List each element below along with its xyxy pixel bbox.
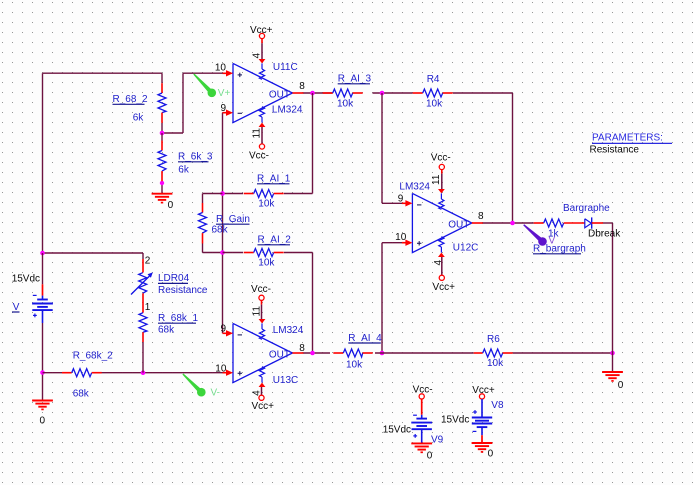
junction dot right ground node — [610, 351, 615, 356]
svg-text:15Vdc: 15Vdc — [441, 414, 469, 425]
label 15Vdc of V9 — [383, 424, 411, 435]
op-amp U11C LM324 — [223, 59, 304, 127]
svg-text:Vcc+: Vcc+ — [250, 25, 273, 36]
value 10k of R4 — [426, 99, 443, 110]
label R_Gain — [216, 214, 250, 225]
pin 10 label U11C — [215, 62, 227, 73]
pin 9 label U13C — [220, 324, 226, 335]
svg-text:11: 11 — [431, 174, 442, 185]
ground 0 right rail — [602, 372, 624, 391]
svg-text:R_AI_2: R_AI_2 — [258, 235, 292, 246]
wire R_AI_3 to R4 row segment — [373, 92, 413, 94]
photoresistor LDR04 vertical with arrow — [131, 259, 153, 313]
svg-text:R_AI_1: R_AI_1 — [257, 174, 291, 185]
svg-text:OUT: OUT — [269, 350, 290, 361]
wire top-left horizontal from left rail to R_68_2 — [43, 72, 163, 74]
pin 4 label U12C — [433, 260, 444, 266]
pin 4 label U13C — [252, 390, 263, 396]
junction dot U13C output node — [310, 351, 315, 356]
label R6 — [487, 334, 500, 345]
wire R_Gain bottom to R_AI_2 row — [203, 244, 223, 253]
value 10k of R_AI_2 — [258, 258, 275, 269]
wire node down to U12C pin 9 — [382, 93, 406, 203]
svg-text:68k: 68k — [73, 388, 90, 399]
wire R_AI_1 left lead to inverting column — [223, 193, 244, 195]
resistor R_Gain (68k) vertical — [199, 203, 207, 244]
label Resistance of LDR04 — [158, 285, 208, 296]
svg-text:R_bargraph: R_bargraph — [533, 244, 586, 255]
wire R_AI_4 to R6 — [375, 352, 474, 354]
svg-text:Resistance: Resistance — [590, 145, 640, 156]
ground 0 below V8 — [472, 443, 494, 460]
pin 8 label U11C — [299, 81, 305, 92]
label R_68_2 — [113, 94, 148, 105]
label V — [12, 302, 20, 313]
svg-text:15Vdc: 15Vdc — [12, 273, 40, 284]
voltage probe V- at U13C input — [182, 374, 220, 399]
svg-text:0: 0 — [427, 450, 433, 461]
pin 9 label U12C — [398, 194, 404, 205]
svg-text:68k: 68k — [212, 225, 229, 236]
label R_68k_2 — [73, 350, 113, 361]
svg-text:R6: R6 — [487, 334, 500, 345]
svg-text:R_68k_2: R_68k_2 — [73, 350, 113, 361]
svg-text:R_AI_4: R_AI_4 — [348, 333, 382, 344]
svg-text:0: 0 — [618, 380, 624, 391]
wire U11C output row to R_AI_3 — [303, 92, 333, 94]
ground 0 bottom-left — [32, 401, 53, 427]
resistor R_AI_2 (10k) horizontal — [244, 249, 284, 257]
label LM324 of U11C — [272, 104, 303, 115]
junction dot R_AI_3 / R4 node — [380, 91, 385, 96]
svg-text:OUT: OUT — [448, 220, 469, 231]
svg-text:9: 9 — [220, 324, 226, 335]
voltage probe V+ at U11C input — [193, 74, 230, 100]
wire bottom row R_68k_2 to U13C pin 10 — [43, 372, 227, 374]
svg-text:0: 0 — [40, 415, 46, 426]
svg-text:10k: 10k — [337, 99, 354, 110]
svg-text:4: 4 — [252, 53, 263, 59]
label U13C — [273, 375, 299, 386]
label R_AI_4 — [348, 333, 382, 344]
wire U13C output row to R_AI_4 — [303, 352, 330, 354]
text PARAMETERS heading — [592, 133, 672, 144]
svg-text:Vcc-: Vcc- — [249, 151, 269, 162]
wire U11C pin 9 to inverting column — [223, 113, 227, 334]
svg-text:R4: R4 — [427, 74, 440, 85]
svg-text:U11C: U11C — [273, 62, 298, 73]
svg-text:10: 10 — [395, 232, 407, 243]
resistor R6 (10k) horizontal — [474, 349, 513, 357]
voltage probe V at U12C output — [523, 224, 555, 246]
pin 8 label U12C — [478, 211, 484, 222]
pin 2 label of LDR04 — [145, 256, 151, 267]
svg-text:LM324: LM324 — [399, 182, 430, 193]
pin 9 label U11C — [220, 103, 226, 114]
wire R6 to right ground rail — [513, 352, 613, 354]
svg-text:V-: V- — [211, 388, 220, 399]
wire V source node to LDR04 branch — [43, 253, 144, 259]
pin 10 label U13C — [215, 363, 227, 374]
wire R_AI_2 left lead — [223, 252, 244, 254]
svg-text:10k: 10k — [258, 258, 275, 269]
svg-text:R_68k_1: R_68k_1 — [158, 313, 198, 324]
voltage source V 15Vdc battery — [32, 284, 53, 323]
pin 10 label U12C — [395, 232, 407, 243]
label Dbreak — [588, 229, 621, 240]
pin 11 label U11C — [252, 128, 263, 139]
pin 11 label U12C — [431, 174, 442, 185]
resistor R_6k_3 (6k) vertical — [158, 141, 166, 182]
junction A dot at R_68_2 / R_6k_3 — [160, 131, 165, 136]
svg-text:R_6k_3: R_6k_3 — [178, 152, 213, 163]
svg-text:11: 11 — [252, 128, 263, 139]
junction dot U11C output node — [310, 91, 315, 96]
voltage source V9 15Vdc — [411, 394, 432, 444]
svg-text:8: 8 — [299, 343, 305, 354]
label R4 — [427, 74, 440, 85]
resistor R_68_2 (6k) vertical — [158, 83, 166, 123]
wire R4 right lead over and down to U12C output — [453, 93, 513, 223]
svg-text:6k: 6k — [178, 164, 190, 175]
svg-text:U12C: U12C — [453, 243, 479, 254]
value 1k of Bargraphe — [548, 228, 560, 239]
resistor R_68k_1 (68k) vertical — [139, 313, 147, 342]
svg-text:R_AI_3: R_AI_3 — [338, 74, 372, 85]
label R_AI_1 — [257, 174, 291, 185]
diode Dbreak — [585, 217, 603, 228]
value 6k of R_68_2 — [133, 112, 145, 123]
junction dot at V plus node — [40, 251, 45, 256]
wire right rail to ground G3 — [612, 353, 614, 372]
junction dot above ground 0 (R_6k_3) — [160, 181, 164, 185]
pin 1 label of LDR04 — [145, 302, 151, 313]
svg-text:OUT: OUT — [269, 90, 290, 101]
label V9 — [431, 434, 444, 445]
label R_6k_3 — [178, 152, 213, 163]
svg-text:2: 2 — [145, 256, 151, 267]
power port Vcc+ above U11C — [250, 25, 273, 59]
label LDR04 — [158, 273, 190, 284]
label R_AI_2 — [258, 235, 292, 246]
svg-text:Dbreak: Dbreak — [588, 229, 621, 240]
power port Vcc+ below U12C — [433, 257, 456, 293]
pin 4 label U11C — [252, 53, 263, 59]
wire bottom rail to ground G2 — [42, 373, 44, 401]
svg-text:10: 10 — [215, 363, 227, 374]
junction dot inverting column row2 — [220, 250, 225, 255]
svg-text:0: 0 — [488, 449, 494, 460]
svg-text:R_68_2: R_68_2 — [113, 94, 148, 105]
svg-text:Vcc-: Vcc- — [251, 284, 271, 295]
value 10k of R6 — [487, 358, 504, 369]
svg-text:Bargraphe: Bargraphe — [563, 203, 610, 214]
svg-text:10: 10 — [215, 62, 227, 73]
op-amp U13C LM324 — [223, 319, 304, 387]
svg-text:V+: V+ — [218, 88, 231, 99]
power port Vcc+ below U13C — [252, 387, 275, 412]
wire R_6k_3 to ground node — [161, 133, 163, 194]
svg-text:Vcc+: Vcc+ — [472, 385, 495, 396]
svg-text:LDR04: LDR04 — [158, 273, 190, 284]
label LM324 of U12C — [399, 182, 430, 193]
label U11C — [273, 62, 298, 73]
label Bargraphe — [563, 203, 610, 214]
svg-text:U13C: U13C — [273, 375, 299, 386]
label LM324 of U13C — [273, 325, 304, 336]
pin 11 label U13C — [252, 306, 263, 317]
svg-text:10k: 10k — [258, 199, 275, 210]
svg-text:V9: V9 — [431, 434, 444, 445]
label 15Vdc of V — [12, 273, 40, 284]
resistor R_AI_1 (10k) horizontal — [244, 190, 284, 198]
wire diode to right rail corner and down — [603, 223, 613, 353]
label 15Vdc of V8 — [441, 414, 469, 425]
ground 0 below V9 — [411, 443, 433, 461]
svg-text:LM324: LM324 — [272, 104, 303, 115]
label R_bargraph — [533, 244, 586, 255]
wire R_AI_2 right lead down to U13C output node — [284, 253, 313, 354]
svg-text:10k: 10k — [426, 99, 443, 110]
wire R_68k_1 lead down to bottom row — [142, 342, 144, 373]
wire R_Gain top to inverting column — [203, 194, 223, 204]
svg-text:R_Gain: R_Gain — [216, 214, 250, 225]
svg-text:Vcc+: Vcc+ — [433, 282, 456, 293]
svg-text:8: 8 — [299, 81, 305, 92]
wire U12C pin 10 column to R_AI_4 node — [382, 243, 406, 353]
svg-text:Resistance: Resistance — [158, 285, 208, 296]
wire junction A to U11C pin 10 (up-and-over) — [162, 73, 227, 133]
label R_68k_1 — [158, 313, 198, 324]
power port Vcc- above U13C — [251, 284, 271, 319]
label U12C — [453, 243, 479, 254]
value 68k of R_Gain — [212, 225, 229, 236]
resistor R_68k_2 (68k) horizontal — [62, 369, 102, 377]
power port Vcc- above V9 — [413, 385, 433, 396]
value 10k of R_AI_4 — [346, 360, 363, 371]
svg-text:V8: V8 — [491, 400, 504, 411]
resistor R_AI_4 (10k) horizontal — [333, 349, 372, 357]
op-amp U12C LM324 — [402, 189, 483, 257]
wire feedback U11C: output node down to R_AI_1 — [284, 93, 313, 194]
svg-text:PARAMETERS:: PARAMETERS: — [592, 133, 663, 144]
svg-text:15Vdc: 15Vdc — [383, 424, 411, 435]
junction dot R_68k_1 bottom node — [141, 370, 146, 375]
label V8 — [491, 400, 504, 411]
value 10k of R_AI_3 — [337, 99, 354, 110]
svg-text:Vcc+: Vcc+ — [252, 401, 275, 412]
svg-text:Vcc-: Vcc- — [431, 153, 451, 164]
svg-text:V: V — [13, 302, 20, 313]
value 10k of R_AI_1 — [258, 199, 275, 210]
label R_AI_3 — [338, 74, 372, 85]
wire V source lower lead to bottom rail — [42, 253, 44, 373]
ground 0 below R_6k_3 — [152, 194, 174, 212]
svg-text:0: 0 — [168, 200, 174, 211]
power port Vcc- above U12C — [431, 153, 451, 189]
value 68k of R_68k_2 — [73, 388, 90, 399]
text Resistance parameter — [590, 145, 640, 156]
pin 8 label U13C — [299, 343, 305, 354]
svg-text:10k: 10k — [487, 358, 504, 369]
value 68k of R_68k_1 — [158, 324, 175, 335]
power port Vcc+ above V8 — [472, 385, 495, 396]
svg-text:Vcc-: Vcc- — [413, 385, 433, 396]
wire U12C output to bargraph branch — [482, 222, 534, 224]
value 6k of R_6k_3 — [178, 164, 190, 175]
junction dot inverting column row1 — [220, 191, 225, 196]
junction dot U12C output node — [510, 221, 515, 226]
svg-text:9: 9 — [398, 194, 404, 205]
svg-text:1: 1 — [145, 302, 151, 313]
svg-text:LM324: LM324 — [273, 325, 304, 336]
svg-text:68k: 68k — [158, 324, 175, 335]
svg-text:1k: 1k — [548, 228, 560, 239]
svg-text:10k: 10k — [346, 360, 363, 371]
wire R_68_2 bottom to junction A — [161, 73, 163, 133]
svg-text:8: 8 — [478, 211, 484, 222]
svg-text:6k: 6k — [133, 112, 145, 123]
voltage source V8 15Vdc — [472, 394, 492, 443]
svg-text:9: 9 — [220, 103, 226, 114]
junction dot R_AI_4 right node — [380, 351, 385, 356]
resistor Bargraphe (1k) horizontal — [534, 219, 585, 227]
power port Vcc- below U11C — [249, 127, 269, 162]
resistor R4 (10k) horizontal — [413, 89, 453, 97]
resistor R_AI_3 (10k) horizontal — [323, 89, 363, 97]
junction dot bottom-left rail — [40, 370, 45, 375]
wire left rail vertical (V source to top wire) — [42, 73, 44, 253]
